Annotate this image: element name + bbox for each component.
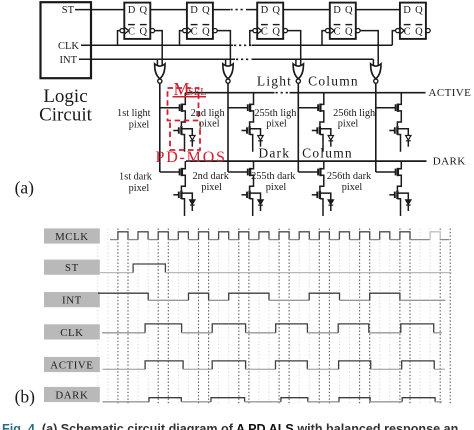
svg-text:DARK: DARK [433, 155, 466, 167]
PD-MOS transistor (column 4 light pixel photo-MOS) [389, 130, 395, 132]
svg-text:DARK: DARK [55, 390, 88, 402]
NOR gate U1 (row select) [156, 59, 158, 66]
photodiode DD1 (column 1 dark pixel) [190, 200, 195, 205]
svg-text:D: D [261, 5, 269, 16]
select transistor MD2 (column 2 dark pixel select) [228, 171, 248, 173]
FF3 Qbar output bubble [283, 29, 287, 33]
svg-text:MCLK: MCLK [55, 231, 89, 243]
svg-text:Q: Q [345, 5, 353, 16]
PD-MOS transistor (column 3 light pixel photo-MOS) [312, 130, 318, 132]
select transistor ML4 (column 4 light pixel select) [376, 107, 396, 109]
svg-text:Light: Light [257, 73, 292, 88]
wire CLK to FF3 C input [250, 31, 253, 46]
svg-text:Q: Q [272, 26, 280, 37]
wire FF1 Q to FF2 D [150, 9, 187, 11]
svg-text:255th ligh: 255th ligh [254, 108, 297, 119]
PD-MOS transistor (column 3 dark pixel photo-MOS) [312, 194, 318, 196]
PD-MOS transistor (column 4 dark pixel photo-MOS) [389, 194, 395, 196]
select transistor MD3 (column 3 dark pixel select) [298, 171, 318, 173]
svg-text:ST: ST [65, 262, 79, 274]
svg-text:ACTIVE: ACTIVE [429, 87, 472, 99]
label box ACTIVE [44, 357, 100, 372]
svg-text:pixel: pixel [266, 119, 287, 130]
photodiode DL4 (column 4 light pixel) [406, 136, 411, 141]
wire ST from logic block to FF1 D [75, 9, 124, 11]
photodiode DD4 (column 4 dark pixel) [406, 200, 411, 205]
PD-MOS transistor (column 2 dark pixel photo-MOS) [242, 194, 248, 196]
svg-text:C: C [128, 26, 135, 37]
svg-text:C: C [191, 26, 198, 37]
svg-text:C: C [333, 26, 340, 37]
svg-text:D: D [128, 5, 136, 16]
select transistor ML2 (column 2 light pixel select) [228, 107, 248, 109]
PD-MOS transistor (column 2 light pixel photo-MOS) [242, 130, 248, 132]
svg-text:D: D [333, 5, 341, 16]
PD-MOS transistor (column 1 light pixel photo-MOS) [173, 130, 179, 132]
svg-text:Q: Q [415, 26, 423, 37]
flip-flop FF4 [330, 3, 356, 39]
timing grid dotted lines [98, 229, 450, 405]
flip-flop FF2 [187, 3, 213, 39]
annotation box PD-MOS (red dashed) [170, 123, 200, 151]
svg-text:Q: Q [140, 26, 148, 37]
svg-text:2nd dark: 2nd dark [193, 171, 230, 182]
select transistor MD4 (column 4 dark pixel select) [376, 171, 396, 173]
svg-text:Fig. 4. (a) Schematic circuit: Fig. 4. (a) Schematic circuit diagram of… [2, 422, 458, 430]
svg-text:ACTIVE: ACTIVE [50, 360, 93, 372]
svg-text:CLK: CLK [60, 327, 83, 339]
select line column 3 [297, 83, 299, 172]
svg-text:(b): (b) [15, 387, 36, 407]
FF2 Qbar output bubble [213, 29, 217, 33]
waveform ST [100, 272, 133, 274]
FF5 C input bubble [396, 29, 400, 33]
FF4 C input bubble [326, 29, 330, 33]
wire CLK to FF1 C input [118, 31, 121, 46]
select line column 1 [159, 83, 161, 172]
wire FF2 Qbar to NOR U2 input [217, 31, 230, 67]
NOR gate U4 (row select) [372, 59, 374, 66]
NOR U4 output bubble [374, 79, 378, 83]
svg-text:2nd ligh: 2nd ligh [191, 108, 226, 119]
wire FF1 Qbar to NOR U1 input [155, 31, 163, 67]
svg-text:pixel: pixel [342, 182, 363, 193]
DARK rail [186, 160, 427, 162]
NOR gate U2 (row select) [225, 59, 227, 66]
svg-text:255th dark: 255th dark [251, 171, 296, 182]
wire FF4 Q to FF5 D [356, 9, 400, 11]
svg-text:pixel: pixel [129, 183, 150, 194]
waveform ACTIVE [103, 368, 146, 370]
NOR U2 body [223, 64, 233, 79]
flip-flop FF3 [257, 3, 283, 39]
NOR U1 body [155, 64, 165, 79]
select transistor MD1 (column 1 dark pixel select) [160, 171, 180, 173]
svg-text:pixel: pixel [266, 182, 287, 193]
svg-text:INT: INT [62, 295, 82, 307]
svg-text:D: D [403, 5, 411, 16]
svg-text:256th dark: 256th dark [327, 171, 372, 182]
svg-text:Q: Q [202, 26, 210, 37]
svg-text:PD-MOS: PD-MOS [156, 149, 227, 166]
label box CLK [44, 324, 100, 339]
svg-text:D: D [190, 5, 198, 16]
ACTIVE rail [185, 92, 274, 94]
FF1 C input bubble [120, 29, 124, 33]
waveform MCLK [110, 239, 118, 241]
waveform INT [98, 293, 148, 300]
FF4 Qbar output bubble [356, 29, 360, 33]
label box MCLK [44, 228, 100, 243]
annotation box MSEL (red dashed) [168, 88, 199, 121]
photodiode DL2 (column 2 light pixel) [258, 136, 263, 141]
NOR gate U3 (row select) [295, 59, 297, 66]
svg-text:Column: Column [302, 146, 353, 161]
photodiode DD2 (column 2 dark pixel) [258, 200, 263, 205]
svg-text:Q: Q [415, 5, 423, 16]
wire CLK to FF2 C input [180, 31, 183, 46]
svg-text:Column: Column [308, 73, 359, 88]
select line column 4 [375, 83, 377, 172]
svg-text:Circuit: Circuit [39, 105, 92, 126]
label box ST [44, 260, 100, 275]
wire CLK to FF4 C input [322, 31, 326, 46]
PD-MOS transistor (column 1 dark pixel photo-MOS) [173, 194, 179, 196]
svg-text:pixel: pixel [338, 119, 359, 130]
wire FF3 Qbar to NOR U3 input [288, 31, 301, 67]
NOR U1 output bubble [158, 79, 162, 83]
svg-text:Q: Q [345, 26, 353, 37]
wire FF2 Q toward FF3 D with dotted break [213, 9, 230, 11]
svg-text:1st dark: 1st dark [119, 172, 153, 183]
flip-flop FF1 [124, 3, 150, 39]
logic circuit block U0 [41, 2, 92, 78]
svg-text:Q: Q [272, 5, 280, 16]
waveform CLK [102, 332, 145, 334]
flip-flop FF5 [400, 3, 426, 39]
photodiode DL1 (column 1 light pixel) [190, 136, 195, 141]
label box INT [44, 292, 100, 307]
wire CLK bus from logic block with dotted break [81, 44, 233, 46]
NOR U4 body [371, 64, 381, 79]
svg-text:Dark: Dark [258, 146, 290, 161]
photodiode DL3 (column 3 light pixel) [328, 136, 333, 141]
select line column 2 [227, 83, 229, 172]
NOR U3 body [293, 64, 303, 79]
svg-text:256th ligh: 256th ligh [333, 108, 376, 119]
select transistor ML1 (column 1 light pixel select) [160, 107, 180, 109]
svg-text:INT: INT [60, 55, 78, 66]
wire CLK to FF5 C input [392, 31, 395, 46]
FF3 C input bubble [253, 29, 257, 33]
FF2 C input bubble [183, 29, 187, 33]
svg-text:ST: ST [62, 5, 75, 16]
NOR U2 output bubble [226, 79, 230, 83]
svg-text:CLK: CLK [58, 41, 79, 52]
svg-text:Q: Q [202, 5, 210, 16]
wire FF3 Q to FF4 D [283, 9, 330, 11]
svg-text:pixel: pixel [201, 182, 222, 193]
svg-text:C: C [404, 26, 411, 37]
svg-text:(a): (a) [15, 178, 35, 198]
svg-text:C: C [261, 26, 268, 37]
waveform DARK [103, 401, 149, 403]
svg-text:pixel: pixel [199, 119, 220, 130]
svg-text:pixel: pixel [129, 119, 150, 130]
FF1 Qbar output bubble [150, 29, 154, 33]
photodiode DD3 (column 3 dark pixel) [328, 200, 333, 205]
svg-text:1st light: 1st light [117, 108, 151, 119]
NOR U3 output bubble [296, 79, 300, 83]
wire INT bus from logic block with dotted break [79, 58, 235, 60]
FF5 Qbar output bubble [426, 29, 430, 33]
wire FF4 Qbar to NOR U4 input [360, 31, 378, 67]
select transistor ML3 (column 3 light pixel select) [298, 107, 318, 109]
label box DARK [44, 387, 100, 402]
svg-text:Q: Q [140, 5, 148, 16]
